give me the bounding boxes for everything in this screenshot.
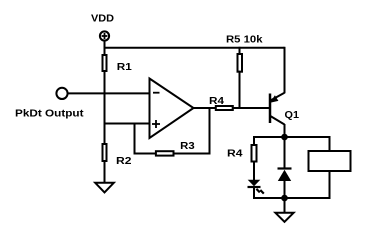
- resistor R1: [103, 55, 107, 71]
- wire left rail R1 to R2: [104, 71, 106, 144]
- relay K1: [309, 151, 351, 171]
- svg-text:R4: R4: [209, 96, 224, 107]
- svg-text:R3: R3: [180, 141, 195, 152]
- junction top: [281, 134, 288, 141]
- wire terminal to inverting input: [68, 92, 150, 94]
- wire R3 to feedback right: [173, 153, 210, 155]
- resistor R3: [156, 151, 174, 155]
- terminal PkDt Output: [56, 88, 67, 99]
- resistor R4 LED: [252, 145, 257, 162]
- svg-text:PkDt Output: PkDt Output: [15, 109, 84, 120]
- wire base: [232, 107, 270, 109]
- op-amp U1: [150, 79, 194, 139]
- diode D2 flyback: [278, 137, 292, 198]
- wire VDD rail: [105, 47, 285, 49]
- svg-text:R1: R1: [117, 62, 132, 73]
- resistor R2: [103, 144, 107, 161]
- wire to R3 left: [134, 153, 157, 155]
- ground left: [95, 183, 114, 193]
- wire R5 top stub: [239, 47, 241, 55]
- LED D1: [248, 180, 264, 194]
- wire top node: [254, 136, 330, 138]
- svg-text:R5 10k: R5 10k: [226, 35, 263, 46]
- wire bottom node: [254, 197, 330, 199]
- transistor Q1: [270, 93, 285, 125]
- svg-text:R4: R4: [227, 149, 243, 160]
- svg-text:VDD: VDD: [91, 14, 114, 25]
- svg-text:Q1: Q1: [285, 110, 300, 121]
- wire emitter to VDD rail: [284, 47, 286, 94]
- wire op-amp output: [193, 107, 217, 109]
- ground right: [275, 213, 293, 222]
- wire R2 to ground: [104, 161, 106, 183]
- svg-text:R2: R2: [116, 156, 132, 167]
- wire relay branch: [329, 136, 331, 199]
- power VDD symbol: [100, 31, 109, 55]
- resistor R4 base: [216, 106, 233, 110]
- resistor R5: [238, 54, 243, 72]
- wire R4 to LED: [253, 161, 255, 181]
- wire feedback up to output: [209, 108, 211, 155]
- junction bottom: [281, 195, 288, 202]
- wire R5 to base: [239, 71, 241, 108]
- wire noninverting input: [105, 123, 150, 125]
- wire R4 LED stub: [253, 136, 255, 146]
- wire collector down: [284, 124, 286, 138]
- wire feedback down from noninverting node: [134, 123, 136, 154]
- wire LED to bottom node: [253, 187, 255, 199]
- wire ground stem right: [284, 198, 286, 213]
